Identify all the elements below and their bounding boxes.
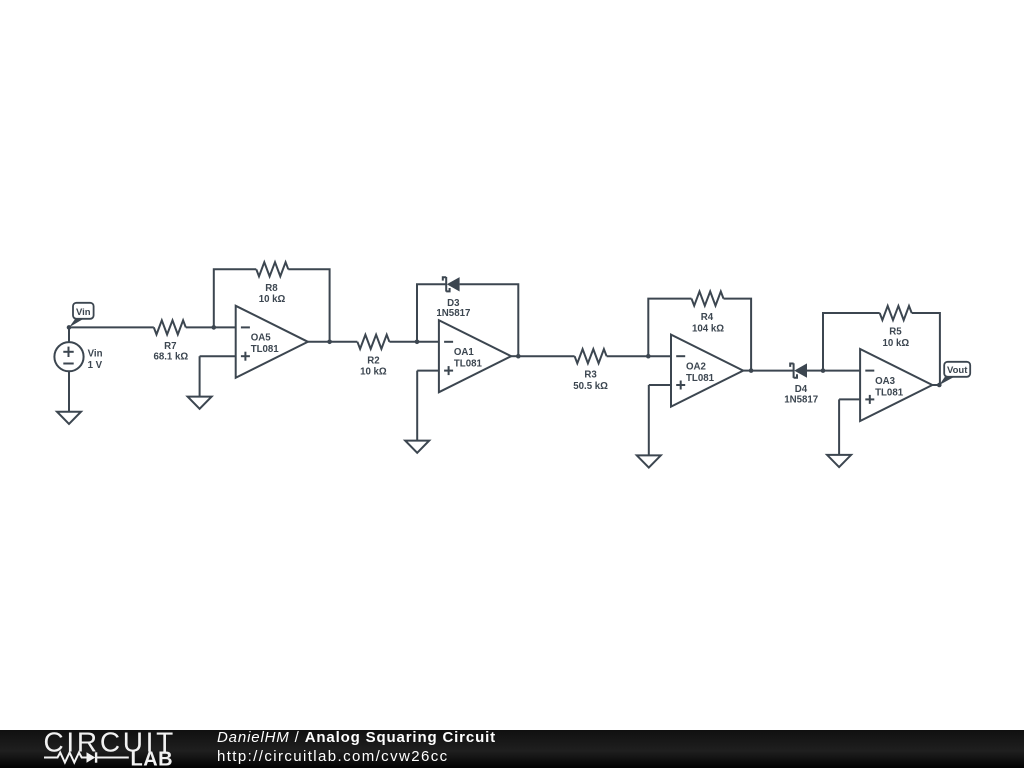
svg-text:1N5817: 1N5817 bbox=[436, 308, 470, 319]
node H bbox=[821, 368, 826, 373]
svg-text:R5: R5 bbox=[889, 327, 902, 338]
svg-text:R3: R3 bbox=[584, 370, 597, 381]
footer text bbox=[217, 729, 496, 767]
wire bbox=[69, 326, 154, 328]
node B bbox=[212, 325, 217, 330]
svg-text:R8: R8 bbox=[265, 283, 278, 294]
svg-text:50.5 kΩ: 50.5 kΩ bbox=[573, 381, 608, 392]
wire bbox=[649, 385, 671, 455]
resistor R8 bbox=[256, 262, 288, 305]
wire bbox=[308, 341, 330, 343]
svg-text:TL081: TL081 bbox=[454, 359, 483, 370]
ground bbox=[637, 455, 661, 467]
svg-text:R7: R7 bbox=[164, 341, 176, 352]
wire bbox=[330, 341, 358, 343]
svg-text:TL081: TL081 bbox=[686, 373, 715, 384]
wire bbox=[743, 370, 751, 372]
svg-text:OA2: OA2 bbox=[686, 361, 706, 372]
resistor R3 bbox=[573, 349, 608, 392]
wire bbox=[417, 371, 439, 441]
wire bbox=[68, 327, 70, 342]
svg-text:10 kΩ: 10 kΩ bbox=[360, 367, 387, 378]
diode D3 bbox=[436, 277, 470, 319]
svg-text:10 kΩ: 10 kΩ bbox=[259, 294, 286, 305]
wire bbox=[648, 299, 691, 357]
svg-text:TL081: TL081 bbox=[251, 344, 280, 355]
node F bbox=[646, 354, 651, 359]
wire bbox=[823, 313, 880, 371]
node D bbox=[415, 340, 420, 345]
op-amp OA1 bbox=[439, 320, 511, 392]
wire bbox=[839, 399, 860, 455]
svg-text:TL081: TL081 bbox=[875, 387, 904, 398]
ground bbox=[827, 455, 851, 467]
node Vin flag bbox=[67, 303, 94, 330]
wire bbox=[200, 356, 236, 396]
wire bbox=[751, 370, 794, 372]
wire bbox=[214, 326, 236, 328]
wire bbox=[417, 341, 439, 343]
ground bbox=[188, 397, 212, 409]
resistor R2 bbox=[357, 335, 389, 378]
wire bbox=[68, 371, 70, 411]
node G bbox=[749, 368, 754, 373]
svg-text:OA3: OA3 bbox=[875, 376, 896, 387]
svg-text:OA1: OA1 bbox=[454, 347, 475, 358]
svg-text:R4: R4 bbox=[701, 312, 714, 323]
diode D4 bbox=[784, 363, 818, 405]
svg-text:OA5: OA5 bbox=[251, 333, 272, 344]
svg-text:Vout: Vout bbox=[947, 365, 968, 376]
footer bar bbox=[0, 730, 1024, 768]
ground bbox=[57, 412, 81, 424]
svg-text:Vin: Vin bbox=[88, 349, 103, 360]
wire bbox=[932, 384, 939, 386]
voltage source Vin bbox=[54, 342, 102, 371]
wire bbox=[417, 284, 446, 342]
svg-text:10 kΩ: 10 kΩ bbox=[882, 338, 909, 349]
wire bbox=[648, 355, 671, 357]
op-amp OA5 bbox=[236, 306, 308, 378]
svg-text:104 kΩ: 104 kΩ bbox=[692, 323, 724, 334]
node Vout flag bbox=[937, 362, 970, 388]
wire bbox=[912, 313, 940, 385]
wire bbox=[214, 269, 256, 327]
resistor R5 bbox=[880, 306, 912, 349]
svg-text:1N5817: 1N5817 bbox=[784, 394, 818, 405]
op-amp OA2 bbox=[671, 335, 743, 407]
wire bbox=[186, 326, 214, 328]
wire bbox=[460, 284, 519, 356]
wire bbox=[518, 355, 574, 357]
resistor R7 bbox=[153, 320, 188, 362]
node E bbox=[516, 354, 521, 359]
svg-text:LAB: LAB bbox=[131, 748, 174, 768]
wire bbox=[724, 299, 752, 371]
svg-text:R2: R2 bbox=[367, 355, 379, 366]
ground bbox=[405, 441, 429, 453]
svg-text:68.1 kΩ: 68.1 kΩ bbox=[153, 351, 188, 362]
node C bbox=[327, 340, 332, 345]
resistor R4 bbox=[692, 292, 725, 335]
CircuitLab logo bbox=[44, 726, 176, 768]
op-amp OA3 bbox=[860, 349, 932, 421]
wire bbox=[607, 355, 649, 357]
wire bbox=[807, 370, 823, 372]
wire bbox=[511, 355, 518, 357]
wire bbox=[288, 269, 329, 342]
wire bbox=[823, 370, 860, 372]
svg-text:Vin: Vin bbox=[76, 307, 91, 318]
svg-text:1 V: 1 V bbox=[88, 360, 103, 371]
wire bbox=[389, 341, 417, 343]
